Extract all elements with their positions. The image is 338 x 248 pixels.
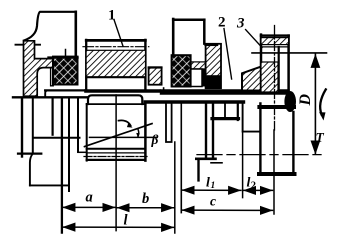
housing hatched wall (left flange strip + band above bore arch) (24, 41, 54, 96)
sprocket centerline (dash-dot) (274, 26, 276, 131)
housing rib right edge (75, 12, 78, 60)
dimension b (117, 207, 174, 209)
shaft right end thick top (163, 89, 288, 94)
D top extension line (252, 52, 327, 54)
lower gear band line 1 (87, 148, 146, 150)
helix reference horizontal line (90, 136, 157, 138)
gear 1 left edge (85, 40, 87, 90)
step box below shaft right of gear (166, 104, 172, 142)
housing boss below axis right wall 2 (212, 103, 214, 159)
dimension l1 (182, 189, 241, 191)
svg-text:1: 1 (211, 181, 216, 191)
sprocket 3 hub hatched (261, 62, 278, 92)
sprocket 3 rim hatched band (261, 38, 289, 45)
housing boss small tick (211, 162, 222, 164)
leader line 2 (224, 29, 232, 79)
svg-text:b: b (142, 191, 149, 207)
extension line a left (bearing center) (61, 99, 63, 233)
bearing seat right side (237, 103, 239, 120)
gear 1 hatch bottom edge (keyway) (86, 76, 145, 78)
sprocket 3 top edge (261, 34, 289, 37)
keyway slot rounded band (88, 95, 142, 104)
dimension l (63, 226, 174, 228)
extension line b/l right (174, 142, 176, 233)
svg-text:l: l (124, 213, 128, 229)
svg-text:T: T (316, 130, 325, 145)
svg-text:2: 2 (218, 15, 226, 31)
svg-text:β: β (151, 132, 159, 147)
shaft bottom line (view half) (145, 100, 243, 104)
svg-text:D: D (297, 94, 314, 107)
extension line l1/c left (180, 102, 182, 213)
shaft left end with rounded corner (45, 90, 48, 97)
bearing boss step in bore (51, 68, 54, 86)
extension line (l2 left) continuation (242, 132, 244, 198)
gear 1 pitch dash-dot line (83, 46, 149, 48)
bearing cover flange top tick (16, 44, 41, 46)
extension line a/b boundary (gear center) (115, 95, 117, 231)
ledge to gear (78, 151, 87, 153)
housing bottom edge (30, 184, 69, 186)
bearing boss left wall below axis (51, 99, 53, 135)
gear 1 right edge (144, 40, 146, 90)
step under cone sleeve (243, 102, 261, 132)
housing flange below axis left line (21, 99, 23, 157)
bearing seat inner line (224, 104, 226, 118)
dimension l2 (243, 189, 272, 191)
right bearing (crosshatched) (172, 55, 191, 86)
shaft shoulder (163, 88, 165, 94)
lower gear bottom edge (87, 159, 146, 161)
svg-text:1: 1 (108, 8, 116, 24)
sprocket 3 hub right edge (278, 47, 280, 92)
svg-text:a: a (86, 190, 93, 206)
beta angle arc (137, 129, 140, 137)
sprocket hub below shaft left (259, 103, 261, 174)
flange bottom tick (18, 153, 41, 155)
shaft top under gear and spacer (thick) (86, 89, 159, 93)
spacer sleeve (hatched) (149, 67, 162, 85)
left bearing (crosshatched) (53, 57, 78, 85)
housing hatch band over bearing pocket (191, 62, 206, 69)
sprocket 3 rim lower line (261, 46, 289, 48)
sprocket force plane extension (solid) (273, 130, 275, 214)
svg-text:l: l (206, 176, 210, 191)
bearing seat block bottom below shaft (212, 117, 239, 120)
bearing boss bottom ledge (35, 137, 80, 139)
shaft end bottom line (259, 105, 294, 109)
sprocket 3 left edge (260, 35, 263, 92)
D bottom extension dash line (197, 154, 322, 156)
dimension a (63, 206, 116, 208)
lower gear rect top edge (87, 103, 146, 105)
housing boss ledge (196, 158, 215, 161)
housing pillar right (197, 159, 199, 181)
sprocket 3 right edge (287, 36, 290, 91)
bearing cap hatched column (206, 44, 221, 88)
gear 1 rim band bottom line (86, 49, 145, 51)
sprocket bottom bar (259, 172, 295, 176)
axis centerline (13, 96, 88, 98)
left bearing top edge (49, 56, 78, 58)
bearing cap white pocket (191, 69, 202, 87)
lower gear rect right edge (144, 104, 147, 161)
right bearing housing boss right edge (203, 20, 206, 44)
helix direction arc arrow (119, 120, 131, 125)
left bearing center stub (65, 50, 67, 58)
svg-text:3: 3 (236, 16, 245, 32)
housing bottom right wall (68, 99, 70, 191)
svg-text:c: c (210, 194, 216, 209)
dimension c (182, 209, 273, 211)
bearing cap column dark bottom (206, 75, 221, 88)
housing inner wall below axis (77, 99, 79, 152)
dimension D vertical (314, 54, 316, 154)
right bearing housing boss top edge (173, 18, 204, 21)
housing lower wall (30, 154, 32, 185)
spacer top edge (149, 67, 162, 69)
shaft end cap nut (black ellipse) (284, 91, 296, 112)
leader line 3 (246, 30, 262, 48)
sprocket hub below shaft right (292, 112, 294, 174)
bearing cap column top edge (206, 44, 217, 47)
black housing strip (202, 69, 207, 87)
svg-text:2: 2 (251, 181, 256, 192)
step cone sleeve before sprocket (hatched, slanted top) (242, 66, 262, 90)
lower gear band line 2 (87, 152, 146, 154)
lower gear rect left edge (86, 104, 88, 161)
lower gear pitch dash-dot (84, 156, 147, 158)
leader line 1 (114, 20, 123, 47)
housing boss below axis right wall 1 (205, 103, 207, 159)
shaft top surface line (45, 89, 86, 91)
right bearing housing boss left edge (172, 19, 175, 62)
torque T arc arrow (320, 89, 326, 114)
helix tooth diagonal line (85, 124, 153, 147)
gear 1 top edge (86, 39, 145, 42)
housing left rib outline (24, 12, 75, 41)
housing flange below axis right line (32, 99, 34, 153)
gear 1 hatched section (86, 50, 145, 77)
